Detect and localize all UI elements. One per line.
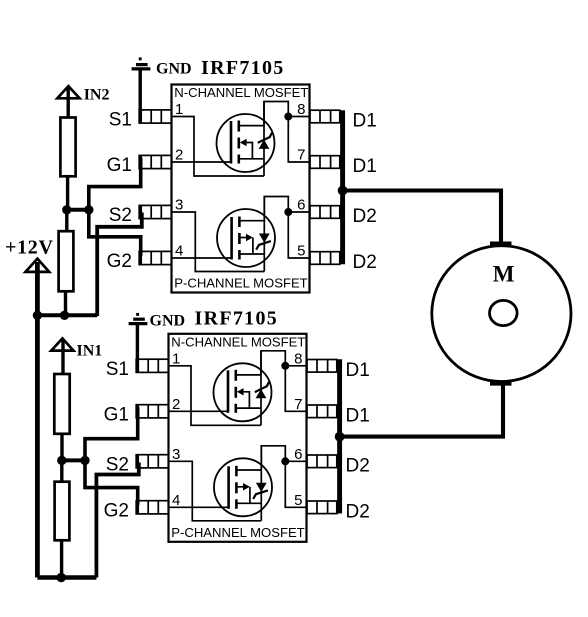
- transistor U2 N-MOSFET channel segments: [235, 370, 238, 381]
- motor M body: [432, 246, 571, 382]
- svg-text:8: 8: [294, 350, 302, 367]
- IC U2 left pin 4 pad bar: [136, 501, 139, 514]
- svg-text:D2: D2: [346, 455, 370, 476]
- transistor U2 N-MOSFET circle: [214, 363, 272, 421]
- IC U2 left pin 1 pad bar: [136, 359, 139, 372]
- IC U1 wire pin1 to N-source: [172, 117, 265, 177]
- svg-text:IN1: IN1: [77, 342, 103, 359]
- wire output node B to motor: [340, 386, 503, 437]
- svg-text:D2: D2: [346, 501, 370, 522]
- transistor U2 P-MOSFET source lead: [236, 502, 261, 504]
- transistor U2 N-MOSFET vertical through: [260, 351, 262, 426]
- svg-text:S1: S1: [106, 359, 129, 380]
- IC U1 junction drain D2: [284, 208, 292, 216]
- IC U1 left pin 2 pad bar: [139, 155, 142, 168]
- svg-text:GND: GND: [156, 61, 192, 78]
- IC U1 left pin 4 pad dividers: [150, 251, 152, 264]
- IC U2 wire pin2 to N-gate: [169, 410, 229, 412]
- input arrow IN1: [51, 338, 73, 350]
- IC U2 right pin 6 pad: [307, 455, 337, 468]
- diode U2 N body diode: [256, 389, 267, 398]
- input arrow IN2: [57, 86, 79, 98]
- transistor U1 N-MOSFET drain lead: [239, 125, 264, 127]
- ground GND1 dot: [139, 58, 142, 61]
- svg-text:IN2: IN2: [84, 86, 110, 103]
- node N1 junction left: [57, 456, 66, 465]
- svg-text:D2: D2: [353, 252, 377, 273]
- wire IN2 arrow stem: [66, 87, 69, 119]
- wire +12V rail vertical: [35, 262, 40, 578]
- wire node N1 to G2 (U2): [85, 460, 138, 506]
- IC U1 wire pin2 to N-gate: [172, 161, 232, 163]
- svg-text:S2: S2: [106, 454, 129, 475]
- transistor U1 N-MOSFET body arrow: [240, 139, 247, 146]
- wire node N2 to R2: [65, 210, 68, 232]
- IC U2 left pin 1 pad dividers: [147, 359, 149, 372]
- IC U2 wire P-drain to pins 6,5: [261, 446, 306, 508]
- resistor R4 (pull-up to +12V): [55, 482, 70, 541]
- IC U1 right pin 5 pad dividers: [319, 252, 321, 265]
- IC U2 wire N-drain to pins 8,7: [261, 351, 307, 412]
- svg-text:M: M: [493, 262, 515, 287]
- IC U1 right pin 8 pad: [310, 110, 340, 123]
- IC U1 left pin 2 pad dividers: [150, 155, 152, 168]
- svg-text:GND: GND: [150, 313, 186, 330]
- svg-text:S2: S2: [109, 205, 132, 226]
- IC U2 wire pin6 branch: [285, 460, 306, 462]
- svg-text:7: 7: [297, 147, 305, 164]
- node N2 junction right: [84, 205, 93, 214]
- IC U2 wire pin3 to P-source: [169, 461, 262, 521]
- IC U2 left pin 3 pad dividers: [147, 455, 149, 468]
- svg-text:D2: D2: [353, 206, 377, 227]
- transistor U1 P-MOSFET body arrow: [239, 237, 246, 239]
- IC U1 wire pin8 branch: [288, 116, 309, 118]
- IC U1 left pin 3 pad: [139, 205, 171, 218]
- svg-text:D1: D1: [353, 111, 377, 132]
- svg-text:6: 6: [297, 197, 305, 214]
- svg-text:6: 6: [294, 446, 302, 463]
- wire S2 (U1) to +12V branch: [97, 213, 142, 317]
- svg-text:S1: S1: [109, 110, 132, 131]
- svg-text:N-CHANNEL MOSFET: N-CHANNEL MOSFET: [174, 85, 308, 100]
- transistor U2 N-MOSFET gate bar: [227, 370, 230, 413]
- IC U2 right pin 5 pad dividers: [316, 501, 318, 514]
- IC U2 left pin 4 pad dividers: [147, 501, 149, 514]
- IC U1 right pin 6 pad: [310, 206, 340, 219]
- wire node N1 to R4: [60, 460, 63, 482]
- diode U2 P body diode: [256, 483, 267, 492]
- node N2 junction left: [62, 205, 71, 214]
- IC U1 wire N-drain to pins 8,7: [264, 102, 310, 163]
- transistor U2 P-MOSFET drain lead: [236, 469, 261, 471]
- svg-text:7: 7: [294, 396, 302, 413]
- IC U1 right pin 6 pad dividers: [319, 206, 321, 219]
- wire node N1 horizontal: [62, 458, 85, 462]
- diode U1 P body diode cathode: [256, 241, 271, 250]
- svg-text:G1: G1: [104, 404, 129, 425]
- diode U1 N body diode cathode: [258, 133, 272, 143]
- junction +12V rail / branch: [33, 311, 42, 320]
- ground GND2 dot: [136, 313, 139, 316]
- resistor R1 (IN2 series): [60, 118, 75, 177]
- svg-text:D1: D1: [346, 405, 370, 426]
- wire +12V bottom rail: [37, 575, 96, 580]
- IC U2 left pin 4 pad: [136, 501, 168, 514]
- IC U1 left pin 4 pad bar: [139, 251, 142, 264]
- IC U1 left pin 1 pad bar: [139, 110, 142, 123]
- IC U2 right pin 7 pad dividers: [316, 405, 318, 418]
- transistor U2 P-MOSFET body arrow: [236, 486, 243, 488]
- ground GND1 upper bar: [136, 63, 148, 66]
- junction output node A: [338, 186, 348, 196]
- transistor U2 N-MOSFET drain lead: [236, 374, 261, 376]
- svg-text:8: 8: [297, 101, 305, 118]
- wire IN1 arrow stem: [61, 339, 64, 375]
- IC U2 left pin 1 pad: [136, 359, 168, 372]
- wire node N2 to G2 (U1): [89, 209, 141, 256]
- svg-text:1: 1: [175, 101, 183, 118]
- svg-text:4: 4: [172, 492, 180, 509]
- svg-text:IRF7105: IRF7105: [201, 57, 285, 79]
- IC U1 left pin 3 pad bar: [139, 205, 142, 218]
- svg-text:3: 3: [175, 197, 183, 214]
- svg-text:G1: G1: [107, 155, 132, 176]
- transistor U1 N-MOSFET channel segments: [238, 121, 241, 132]
- IC U2 wire pin4 to P-gate: [169, 506, 229, 508]
- IC U2 right pin 7 pad: [307, 405, 337, 418]
- wire output bus U2 (D pins): [337, 359, 342, 513]
- svg-text:1: 1: [172, 350, 180, 367]
- ground GND2 upper bar: [133, 318, 145, 321]
- svg-text:D1: D1: [346, 360, 370, 381]
- wire output node A to motor: [343, 191, 501, 242]
- IC U1 junction drain D1: [284, 113, 292, 121]
- transistor U1 N-MOSFET source lead: [239, 158, 264, 160]
- transistor U1 N-MOSFET circle: [217, 114, 275, 172]
- IC U2 junction drain D1: [281, 362, 289, 370]
- IC U2 wire pin8 branch: [285, 365, 306, 367]
- motor M terminal bottom: [490, 381, 512, 385]
- node N1 junction right: [80, 456, 89, 465]
- power arrow +12V: [26, 259, 50, 272]
- IC U1 left pin 4 pad: [139, 251, 171, 264]
- IC U1 wire P-drain to pins 6,5: [264, 197, 309, 259]
- IC U1 IRF7105 body: [172, 85, 310, 293]
- svg-text:N-CHANNEL MOSFET: N-CHANNEL MOSFET: [171, 334, 305, 349]
- ground GND2 lower bar: [129, 322, 148, 325]
- IC U2 IRF7105 body: [169, 334, 307, 542]
- motor M terminal top: [490, 242, 512, 246]
- IC U2 right pin 8 pad: [307, 360, 337, 373]
- transistor U1 P-MOSFET gate bar: [230, 217, 233, 260]
- svg-text:G2: G2: [104, 500, 129, 521]
- IC U2 group (bottom IRF7105): [104, 334, 370, 542]
- IC U2 left pin 2 pad dividers: [147, 405, 149, 418]
- diode U1 N body diode: [259, 140, 270, 149]
- IC U1 right pin 8 pad dividers: [319, 110, 321, 123]
- resistor R3 (IN1 series): [54, 374, 69, 434]
- IC U1 right pin 7 pad dividers: [319, 156, 321, 169]
- IC U2 left pin 2 pad bar: [136, 405, 139, 418]
- svg-text:IRF7105: IRF7105: [195, 307, 279, 329]
- IC U1 wire pin3 to P-source: [172, 212, 265, 272]
- wire R2 to +12V branch: [64, 291, 67, 316]
- wire output bus U1 (D pins): [340, 110, 345, 264]
- IC U1 right pin 7 pad: [310, 156, 340, 169]
- motor M shaft: [490, 300, 518, 325]
- resistor R2 (pull-up to +12V): [59, 231, 74, 291]
- svg-text:3: 3: [172, 446, 180, 463]
- IC U1 right pin 5 pad: [310, 252, 340, 265]
- junction R2 on +12V branch: [60, 311, 69, 320]
- IC U2 right pin 6 pad dividers: [316, 455, 318, 468]
- svg-text:P-CHANNEL MOSFET: P-CHANNEL MOSFET: [171, 525, 304, 540]
- transistor U2 P-MOSFET gate bar: [227, 466, 230, 509]
- transistor U2 N-MOSFET body arrow: [237, 388, 244, 395]
- transistor U1 P-MOSFET vertical through: [263, 197, 265, 272]
- IC U2 right pin 5 pad: [307, 501, 337, 514]
- wire node N2 to G1 (U1): [89, 158, 141, 211]
- transistor U1 N-MOSFET vertical through: [263, 102, 265, 177]
- wire GND2 to S1 pin: [136, 325, 139, 372]
- svg-text:P-CHANNEL MOSFET: P-CHANNEL MOSFET: [174, 276, 307, 291]
- IC U2 right pin 8 pad dividers: [316, 360, 318, 373]
- wire node N2 horizontal: [67, 208, 89, 212]
- transistor U2 P-MOSFET channel segments: [235, 466, 238, 477]
- transistor U1 P-MOSFET source lead: [239, 253, 264, 255]
- wire R1 to node N2: [66, 176, 69, 211]
- transistor U2 N-MOSFET source lead: [236, 407, 261, 409]
- IC U1 left pin 1 pad: [139, 110, 171, 123]
- IC U2 left pin 2 pad: [136, 405, 168, 418]
- IC U2 wire pin1 to N-source: [169, 366, 262, 426]
- junction R4 on bottom rail: [57, 573, 66, 582]
- IC U1 group (top IRF7105): [107, 85, 377, 293]
- transistor U2 P-MOSFET circle: [214, 458, 272, 516]
- IC U2 junction drain D2: [281, 457, 289, 465]
- IC U1 wire pin4 to P-gate: [172, 257, 232, 259]
- diode U2 P body diode cathode: [253, 490, 268, 499]
- diode U2 N body diode cathode: [255, 382, 269, 392]
- svg-text:+12V: +12V: [5, 237, 54, 259]
- IC U2 left pin 3 pad bar: [136, 455, 139, 468]
- transistor U1 P-MOSFET drain lead: [239, 220, 264, 222]
- IC U2 left pin 3 pad: [136, 455, 168, 468]
- transistor U1 P-MOSFET channel segments: [238, 217, 241, 228]
- transistor U1 N-MOSFET gate bar: [230, 121, 233, 164]
- transistor U1 P-MOSFET circle: [217, 209, 275, 267]
- IC U1 left pin 3 pad dividers: [150, 205, 152, 218]
- svg-text:5: 5: [297, 243, 305, 260]
- svg-text:2: 2: [175, 147, 183, 164]
- diode U1 P body diode: [259, 234, 270, 243]
- transistor U2 P-MOSFET vertical through: [260, 446, 262, 521]
- IC U1 wire pin6 branch: [288, 211, 309, 213]
- ground GND1 lower bar: [132, 67, 151, 70]
- IC U1 left pin 1 pad dividers: [150, 110, 152, 123]
- wire S2 (U2) to bottom rail: [96, 463, 138, 578]
- wire node N1 to G1 (U2): [85, 407, 138, 462]
- junction output node B: [335, 432, 345, 442]
- svg-text:2: 2: [172, 396, 180, 413]
- svg-text:G2: G2: [107, 251, 132, 272]
- svg-text:5: 5: [294, 492, 302, 509]
- wire R4 to +12V bottom rail: [60, 540, 63, 578]
- IC U1 left pin 2 pad: [139, 155, 171, 168]
- wire +12V branch horizontal: [37, 313, 97, 317]
- wire R3 to node N1: [60, 434, 63, 462]
- svg-text:D1: D1: [353, 156, 377, 177]
- svg-text:4: 4: [175, 243, 183, 260]
- wire GND1 to S1 pin: [138, 70, 141, 123]
